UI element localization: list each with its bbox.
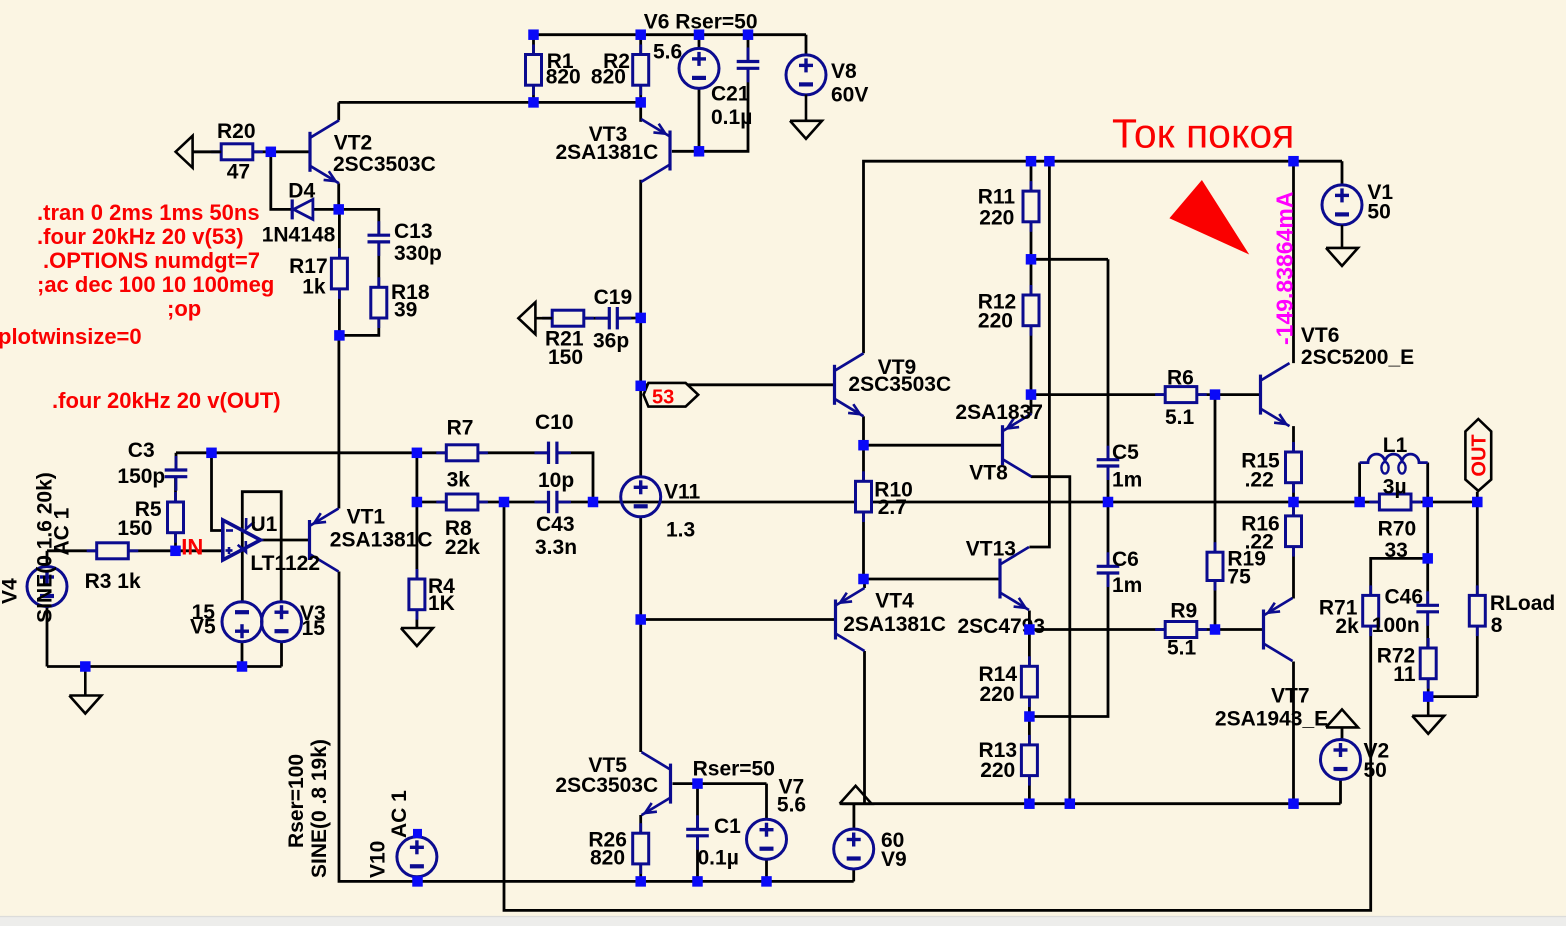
junction R13 bottom rail (1024, 798, 1035, 809)
wire VT9e to VT8 base (864, 444, 1003, 447)
resistor R72 (1420, 638, 1436, 689)
label R71 value (1335, 615, 1359, 638)
label C6 (1112, 548, 1139, 571)
svg-text:IN: IN (181, 535, 203, 560)
junction V7 bottom (761, 876, 772, 887)
wire R13 bottom (1028, 776, 1031, 804)
transistor VT2 2SC3503C (npn) (310, 120, 339, 183)
ground under V1 (1326, 225, 1358, 266)
label R11 value (979, 207, 1014, 230)
wire VT7 collector down (1292, 662, 1295, 804)
wire C43 to node (558, 501, 593, 504)
resistor R19 (1207, 542, 1223, 590)
junction feedback tap (206, 448, 217, 459)
wire out node to flag (1476, 492, 1479, 502)
wire R26 bottom (639, 864, 642, 881)
label VT3 type (556, 141, 659, 164)
wire V10 bottom stub (416, 876, 419, 882)
wire R8 left stub (417, 501, 446, 504)
label R1 value (546, 66, 581, 89)
svg-text:50: 50 (1364, 759, 1387, 782)
wire RLoad top (1476, 502, 1479, 595)
wire col417 down to R4 (415, 502, 418, 579)
junction VT8col rail (1065, 798, 1076, 809)
junction V6 top (694, 29, 705, 40)
resistor R9 (1155, 622, 1207, 638)
junction OUT/RLoad (1472, 497, 1483, 508)
label R17 (289, 255, 328, 278)
label VT8 type (955, 401, 1043, 424)
svg-text:.four 20kHz 20 v(53): .four 20kHz 20 v(53) (37, 224, 244, 249)
label VT2 (334, 131, 373, 154)
resistor R3 (87, 543, 139, 559)
wire V4 top corner (46, 551, 49, 567)
junction R19 bottom/VT7 base (1210, 624, 1221, 635)
label VT2 type (333, 153, 436, 176)
capacitor C46 (1416, 591, 1439, 626)
label Rser=50 (V7) (693, 757, 775, 780)
wire R11R12 tap right (1031, 258, 1108, 261)
wire R7 row (417, 451, 446, 454)
label R17 value (302, 275, 326, 298)
voltage source V8 (786, 55, 826, 95)
resistor R26 (633, 823, 649, 874)
wire R14-R13 (1028, 697, 1031, 745)
svg-text:1K: 1K (428, 592, 455, 615)
label VT1 (347, 505, 386, 528)
wire R70 to node (1411, 501, 1477, 504)
junction C21 top (743, 29, 754, 40)
svg-text:3.3n: 3.3n (535, 536, 577, 559)
label R72 (1377, 645, 1416, 668)
svg-text:330p: 330p (394, 242, 442, 265)
label R14 (979, 663, 1018, 686)
label R16 (1241, 513, 1280, 536)
label C3 (128, 439, 155, 462)
wire R16 to VT7 emitter (1292, 547, 1295, 599)
label C46 (1385, 585, 1424, 608)
wire R10 bottom (862, 512, 865, 579)
junction R14/R13 mid (1024, 711, 1035, 722)
wire V4 bottom (46, 606, 49, 667)
svg-text:1N4148: 1N4148 (262, 223, 336, 246)
label C1 value (698, 847, 739, 870)
svg-text:;ac dec 100 10 100meg: ;ac dec 100 10 100meg (37, 272, 274, 297)
svg-text:;op: ;op (167, 296, 201, 321)
svg-text:220: 220 (979, 207, 1014, 230)
label R6 value (1165, 406, 1195, 429)
svg-text:VT6: VT6 (1301, 324, 1340, 347)
label R5 value (117, 517, 152, 540)
label R72 value (1393, 663, 1416, 686)
svg-text:2k: 2k (1335, 615, 1359, 638)
wire VT5 emitter to R26 (639, 815, 642, 833)
net flag 53 outline (644, 383, 699, 407)
transistor VT8 2SA1837 (pnp) (1003, 414, 1032, 477)
svg-text:V8: V8 (831, 60, 857, 83)
ground under R4 (401, 628, 433, 646)
label R8 value (445, 536, 480, 559)
junction V10 bottom (412, 876, 423, 887)
ground under V8 (790, 95, 822, 139)
label V11 (664, 481, 701, 504)
svg-text:0.1µ: 0.1µ (698, 847, 739, 870)
svg-text:150: 150 (117, 517, 152, 540)
svg-text:LT1122: LT1122 (250, 552, 320, 575)
svg-text:V11: V11 (664, 481, 701, 504)
svg-text:1m: 1m (1112, 574, 1142, 597)
directive ;ac (37, 272, 274, 297)
junction R6/VT6 base (1210, 389, 1221, 400)
wire R15 bottom (1292, 483, 1295, 502)
wire L1 left leg (1358, 463, 1361, 503)
wire C6 bottom to R13R14 mid (1029, 574, 1108, 717)
label R71 (1319, 597, 1358, 620)
wire C3-R5 (174, 478, 177, 502)
junction VT13 emitter/R14 (1024, 624, 1035, 635)
wire R9 to VT7 base (1197, 628, 1264, 631)
capacitor C5 (1097, 446, 1120, 480)
voltage source V6 (679, 48, 719, 88)
ground (inverted) above V9 (840, 786, 872, 804)
svg-text:D4: D4 (288, 179, 315, 202)
wire R20 to VT2 base (253, 150, 310, 153)
svg-text:V4: V4 (0, 578, 22, 604)
resistor R13 (1021, 735, 1037, 786)
resistor R2 (633, 45, 649, 96)
junction R2 bottom (635, 97, 646, 108)
svg-text:R70: R70 (1378, 518, 1417, 541)
label RLoad (1490, 592, 1555, 615)
label C43 value (535, 536, 577, 559)
wire V2 plus stub (1341, 727, 1344, 740)
junction V6 minus / VT3 base (694, 146, 705, 157)
wire V6 top stub (698, 35, 701, 50)
svg-text:Ток покоя: Ток покоя (1112, 111, 1294, 157)
svg-text:.22: .22 (1245, 468, 1274, 491)
svg-text:C21: C21 (711, 82, 750, 105)
wire port to R20 (192, 150, 221, 153)
label C3 value (117, 465, 165, 488)
wire VT6 base node down (R19) (1214, 395, 1217, 553)
svg-text:.OPTIONS numdgt=7: .OPTIONS numdgt=7 (43, 248, 260, 273)
voltage source V5 (minus up) (222, 602, 262, 642)
directive .four vOUT (52, 388, 281, 413)
wire C1 top (696, 784, 699, 829)
wire C46 top (1426, 558, 1429, 604)
junction R7 left (412, 448, 423, 459)
wire R7 to C10 (478, 451, 547, 454)
wire L1 right leg (1426, 463, 1429, 503)
wire V7 bottom (765, 859, 768, 882)
wire mid rail (593, 501, 1360, 504)
svg-text:39: 39 (394, 298, 417, 321)
svg-text:.tran 0 2ms 1ms 50ns: .tran 0 2ms 1ms 50ns (37, 200, 260, 225)
wire R1 bottom (532, 85, 535, 102)
svg-text:1.3: 1.3 (666, 519, 695, 542)
svg-text:22k: 22k (445, 536, 480, 559)
junction VT8 emitter/R12 (1026, 389, 1037, 400)
wire C21 bottom to VT3 base (672, 69, 748, 152)
label R15 value (1245, 468, 1274, 491)
svg-text:R6: R6 (1167, 366, 1194, 389)
svg-text:2SC3503C: 2SC3503C (848, 373, 951, 396)
junction L1 left (1354, 497, 1365, 508)
comment Tok pokoya (1112, 111, 1294, 157)
svg-text:33: 33 (1385, 539, 1408, 562)
label L1 value (1383, 475, 1407, 498)
wire V7 top stub (765, 784, 768, 820)
label R26 value (590, 847, 625, 870)
label V10 Rser (rot) (285, 754, 308, 848)
label R8 (445, 517, 472, 540)
label V9 value (881, 829, 904, 852)
directive .four v53 (37, 224, 244, 249)
label R11 (978, 186, 1016, 209)
junction VT9 emitter (858, 440, 869, 451)
label R26 (588, 828, 627, 851)
directive .OPTIONS (43, 248, 260, 273)
svg-text:0.1µ: 0.1µ (711, 106, 752, 129)
wire R9 row (1029, 628, 1165, 631)
svg-text:AC 1: AC 1 (388, 790, 411, 838)
wire VT4 collector down (863, 651, 866, 804)
transistor VT3 2SA1381C (pnp mirrored) (641, 119, 670, 182)
svg-text:15: 15 (302, 617, 326, 640)
label R16 value (1245, 531, 1274, 554)
svg-text:C13: C13 (394, 220, 433, 243)
wire VT5 base row to V7 (698, 782, 767, 785)
svg-text:8: 8 (1491, 614, 1503, 637)
svg-text:R9: R9 (1170, 600, 1197, 623)
ground (inverted) above V2 (1326, 709, 1358, 727)
label VT5 (588, 754, 627, 777)
label V10 SINE (rot) (308, 739, 331, 878)
wire C46 to R72 (1426, 612, 1429, 648)
label VT7 type (1215, 708, 1328, 731)
current annotation -149.83864mA (1272, 192, 1298, 345)
wire gnd rail V4/V5/V3 (47, 665, 282, 668)
diode D4 1N4148 (292, 199, 313, 219)
wire R8 row left (415, 453, 418, 502)
wire node to VT5 collector (639, 620, 642, 753)
svg-text:VT7: VT7 (1271, 685, 1310, 708)
junction R8 left (412, 497, 423, 508)
label VT9 (878, 356, 917, 379)
junction return loop tap (499, 497, 510, 508)
resistor R7 (436, 445, 488, 461)
wire VT2 collector up (337, 102, 340, 120)
wire D4 to VT2 emitter node (313, 208, 339, 211)
svg-text:C1: C1 (714, 815, 741, 838)
wire VT8 emitter up (1030, 395, 1033, 414)
label C21 value (711, 106, 752, 129)
wire R8 to C43 (478, 501, 546, 504)
svg-text:R3 1k: R3 1k (85, 570, 141, 593)
svg-text:820: 820 (546, 66, 581, 89)
net label OUT text (1469, 434, 1491, 476)
label V4 AC (rot) (51, 507, 74, 555)
wire R72 gnd tee right (1428, 695, 1477, 698)
label D4 (288, 179, 315, 202)
junction zobel tee (1422, 553, 1433, 564)
svg-text:820: 820 (590, 847, 625, 870)
svg-text:OUT: OUT (1469, 434, 1491, 476)
svg-text:2SA1837: 2SA1837 (955, 401, 1043, 424)
label C21 (711, 82, 750, 105)
label R18 value (394, 298, 417, 321)
svg-text:150: 150 (548, 346, 583, 369)
svg-text:5.6: 5.6 (653, 41, 682, 64)
voltage source V2 (1321, 740, 1361, 780)
junction R1 bottom (528, 97, 539, 108)
transistor VT7 2SA1943_E (pnp) (1264, 598, 1293, 661)
resistor R16 (1286, 506, 1302, 557)
wire VT9 emitter down (862, 416, 865, 445)
svg-text:V9: V9 (881, 848, 907, 871)
voltage source V10 (397, 837, 437, 877)
ground under R72 (1412, 697, 1444, 734)
svg-text:C6: C6 (1112, 548, 1139, 571)
label R12 value (978, 309, 1013, 332)
resistor R6 (1155, 387, 1207, 403)
label V3 (300, 602, 326, 625)
label R18 (391, 281, 430, 304)
label V8 value (831, 84, 868, 107)
svg-text:Rser=100: Rser=100 (285, 754, 308, 848)
junction mid rail C5C6 (1103, 497, 1114, 508)
svg-text:220: 220 (978, 309, 1013, 332)
wire VT2 emitter down (337, 183, 340, 209)
label R15 (1241, 449, 1280, 472)
svg-text:R11: R11 (978, 186, 1016, 209)
svg-text:Rser=50: Rser=50 (693, 757, 775, 780)
wire VT13 emitter down (1028, 611, 1031, 630)
label C6 value (1112, 574, 1142, 597)
svg-text:75: 75 (1227, 565, 1251, 588)
port flag at R20 (176, 136, 222, 168)
label C19 value (593, 329, 629, 352)
label R7 (447, 417, 474, 440)
label C10 (535, 411, 574, 434)
label V2 value (1364, 759, 1387, 782)
capacitor C43 (535, 491, 571, 513)
label R10 (874, 479, 913, 502)
label U1 type (250, 552, 320, 575)
wire C13 to R18 (377, 243, 380, 288)
wire VT9 collector to top rail (864, 161, 1343, 353)
resistor R8 (436, 494, 488, 510)
wire rail to R70 (1360, 501, 1380, 504)
junction VT7 collector rail (1288, 798, 1299, 809)
wire R17 top (338, 209, 341, 258)
wire R6 to VT6 base (1197, 393, 1261, 396)
resistor R12 (1023, 285, 1039, 336)
wire R21 to C19 (584, 317, 609, 320)
port flag at R21 (518, 302, 552, 334)
junction V5 bottom (237, 661, 248, 672)
junction R11/R12 tap (1026, 254, 1037, 264)
capacitor C13 (368, 221, 391, 256)
label R7 value (447, 469, 471, 492)
wire C10 out drop (558, 453, 593, 502)
label C13 value (394, 242, 442, 265)
svg-text:1k: 1k (302, 275, 326, 298)
svg-text:.four 20kHz 20 v(OUT): .four 20kHz 20 v(OUT) (52, 388, 281, 413)
label C1 (714, 815, 741, 838)
label C5 value (1112, 468, 1142, 491)
svg-text:C46: C46 (1385, 585, 1424, 608)
label V7 (779, 776, 805, 799)
resistor R18 (371, 277, 387, 328)
wire VT8 collector down (1031, 477, 1070, 804)
svg-text:2.7: 2.7 (878, 496, 907, 519)
capacitor C19 (595, 307, 631, 329)
label R70 value (1385, 539, 1408, 562)
wire VT3 collector down (639, 180, 642, 318)
label V6 (644, 11, 758, 34)
wire zobel tee to R71 (1371, 558, 1428, 595)
svg-text:SINE(0 1.6 20k): SINE(0 1.6 20k) (34, 472, 57, 623)
label V5 (190, 615, 216, 638)
label VT1 type (330, 528, 433, 551)
junction R72 bottom tee (1423, 691, 1434, 702)
junction C1 bottom (692, 876, 703, 887)
wire V5 bottom (241, 641, 244, 667)
label V4 SINE (rot) (34, 472, 57, 623)
label R20 (217, 120, 256, 143)
dangling node marker V10 plus (413, 829, 422, 838)
wire top rail to V1 (1341, 161, 1344, 185)
label VT3 (589, 123, 628, 146)
wire R12 bottom (1030, 326, 1033, 395)
label V9 (881, 848, 907, 871)
wire C21 top stub (747, 35, 750, 62)
transistor VT5 2SC3503C (npn mirrored) (642, 752, 671, 815)
junction R26 bottom (635, 876, 646, 887)
svg-text:11: 11 (1393, 663, 1416, 686)
svg-text:10p: 10p (538, 469, 574, 492)
svg-text:L1: L1 (1383, 434, 1408, 457)
svg-text:C10: C10 (535, 411, 574, 434)
label C43 (536, 513, 575, 536)
wire C13 branch top (339, 209, 379, 234)
junction top rail VT13col (1044, 156, 1055, 167)
transistor VT1 2SA1381C (pnp) (310, 509, 339, 572)
label VT5 type (555, 774, 658, 797)
label R1 (547, 50, 574, 73)
wire V11 bottom to VT4 base node (639, 516, 642, 619)
wire node335 to VT1 emitter (337, 335, 340, 508)
label R9 value (1167, 637, 1197, 660)
wire node53 to VT9 base (641, 383, 835, 386)
label R3 (85, 570, 141, 593)
wire V9 plus stub (853, 804, 856, 829)
label V11 value (666, 519, 695, 542)
transistor VT13 2SC4793 (npn) (1000, 547, 1029, 610)
svg-text:60V: 60V (831, 84, 868, 107)
svg-text:50: 50 (1367, 201, 1390, 224)
junction top rail R11 (1026, 156, 1037, 167)
wire VT4 emitter up (863, 579, 866, 588)
wire zobel drop (1426, 502, 1429, 558)
label R19 (1227, 548, 1266, 571)
label V10 AC (rot) (388, 790, 411, 838)
label V1 value (1367, 201, 1390, 224)
capacitor C21 (737, 48, 760, 83)
wire R3 to opamp + (128, 549, 223, 552)
wire R19 bottom (1214, 581, 1217, 630)
